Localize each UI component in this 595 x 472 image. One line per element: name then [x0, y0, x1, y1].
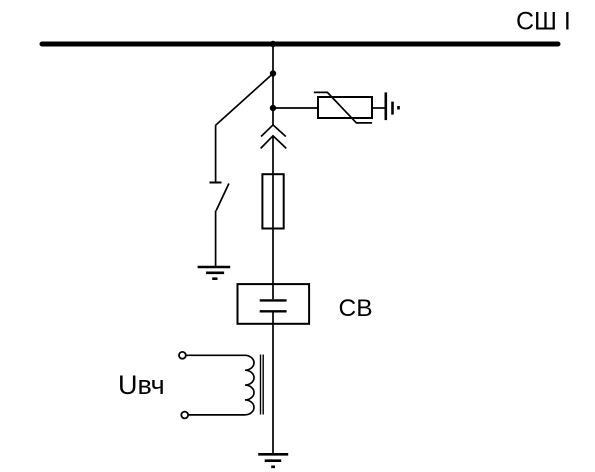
- wire: bottom terminal to winding: [188, 414, 245, 416]
- disconnector upper vertical wire: [215, 125, 217, 181]
- capacitor top lead inside box: [272, 284, 274, 299]
- wire: blade to left ground: [215, 211, 217, 268]
- surge arrester (varistor) body RU: [318, 97, 372, 118]
- capacitor bottom lead: [272, 313, 274, 324]
- ground symbol (left): [198, 267, 231, 279]
- ground symbol (bottom): [258, 454, 288, 467]
- wire: node B down to spark gap: [272, 108, 274, 125]
- wire: spark gap down through fuse to СВ box: [272, 136, 274, 284]
- wire: top terminal to winding: [186, 354, 245, 356]
- node A junction dot: [270, 70, 276, 76]
- transformer T primary bottom terminal: [181, 412, 188, 419]
- svg-text:СВ: СВ: [339, 295, 373, 322]
- busbar СШ I: [42, 42, 558, 47]
- fuse FU body: [262, 174, 283, 228]
- transformer core lines: [260, 355, 262, 415]
- capacitor bottom plate: [260, 310, 287, 312]
- transformer primary winding (4 arcs): [245, 355, 254, 415]
- junction dot on busbar: [270, 41, 276, 47]
- wire: node B to arrester: [273, 107, 318, 109]
- wire: arrester to right ground: [372, 107, 386, 109]
- wire: node A down to node B: [272, 74, 274, 109]
- varistor diagonal stroke with tails: [314, 92, 372, 123]
- disconnector open blade: [216, 184, 229, 211]
- svg-text:Uвч: Uвч: [118, 370, 165, 400]
- svg-text:СШ I: СШ I: [516, 8, 571, 36]
- wire: СВ box down to bottom ground: [272, 324, 274, 454]
- spark gap FV upper chevron: [261, 125, 286, 137]
- ground symbol (right, sideways): [386, 92, 399, 120]
- disconnector QS diagonal wire from node A: [216, 74, 273, 126]
- transformer T primary top terminal: [179, 352, 186, 359]
- disconnector fixed contact T-bar: [210, 182, 222, 184]
- node B junction dot: [270, 105, 276, 111]
- spark gap FV lower chevron: [261, 136, 287, 149]
- wire: busbar down to node A: [272, 44, 274, 74]
- capacitor top plate: [260, 299, 287, 301]
- СВ coupling-capacitor box: [238, 284, 310, 324]
